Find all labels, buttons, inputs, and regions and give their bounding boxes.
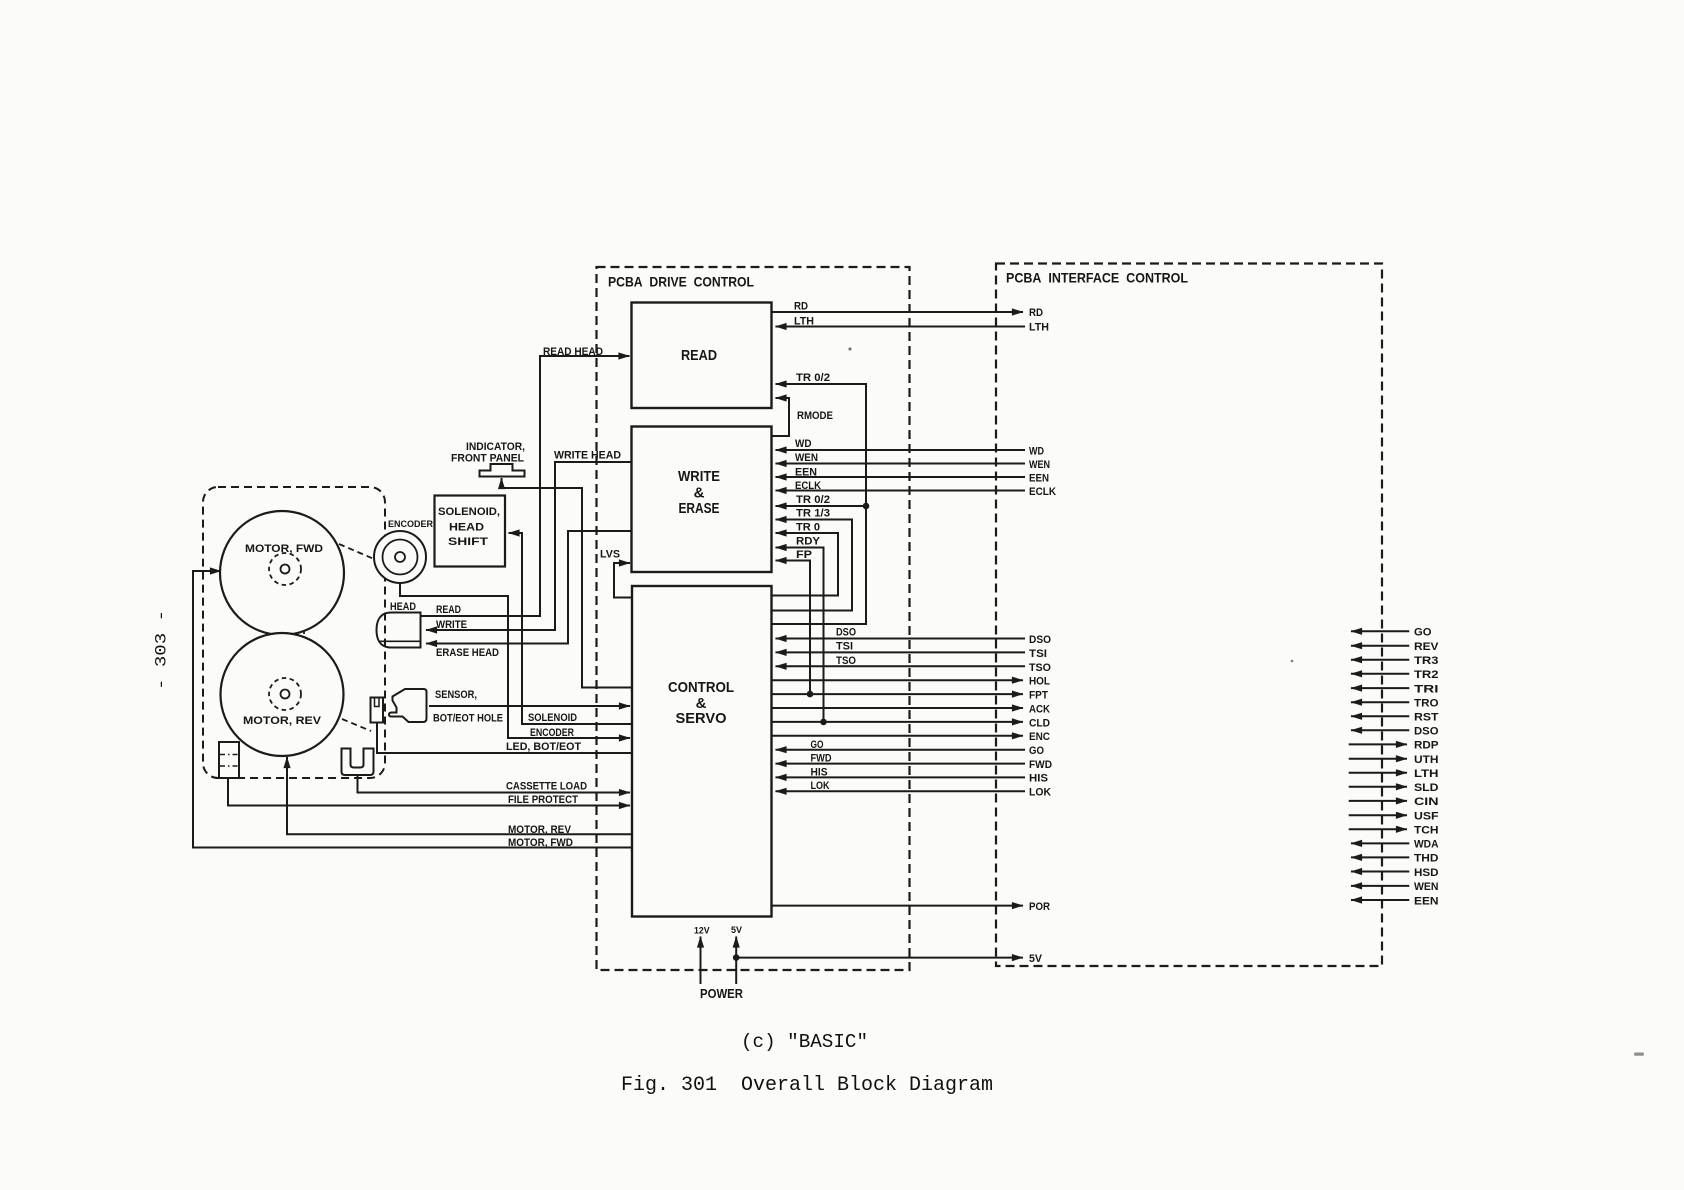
svg-text:PCBA INTERFACE CONTROL: PCBA INTERFACE CONTROL bbox=[1006, 270, 1188, 286]
svg-text:ECLK: ECLK bbox=[1029, 486, 1056, 498]
svg-text:TR3: TR3 bbox=[1414, 655, 1439, 667]
svg-text:ECLK: ECLK bbox=[795, 480, 821, 492]
svg-text:ERASE HEAD: ERASE HEAD bbox=[436, 647, 499, 659]
svg-text:WEN: WEN bbox=[1029, 459, 1050, 471]
svg-text:READ: READ bbox=[681, 347, 717, 364]
svg-text:THD: THD bbox=[1414, 853, 1439, 865]
svg-text:LOK: LOK bbox=[1029, 787, 1051, 799]
cassette (dashed rectangle) bbox=[270, 602, 304, 661]
wire 5V to interface bbox=[736, 957, 1023, 959]
PCBA INTERFACE CONTROL enclosure (dashed box) bbox=[996, 264, 1382, 967]
wire SLD (interface output, right edge) bbox=[1349, 786, 1407, 788]
wire LTH (interface to read) bbox=[776, 326, 1026, 328]
wire CIN (interface output, right edge) bbox=[1349, 800, 1407, 802]
svg-text:GO: GO bbox=[1414, 627, 1432, 639]
svg-text:FP: FP bbox=[796, 549, 812, 561]
wire RDP (interface output, right edge) bbox=[1349, 743, 1407, 745]
wire TSI (interface to control) bbox=[776, 651, 1026, 653]
wire UTH (interface output, right edge) bbox=[1349, 758, 1407, 760]
wire CASSETTE LOAD (switch to control) bbox=[358, 775, 631, 793]
wire SENSOR BOT/EOT HOLE (sensor to control) bbox=[429, 705, 630, 707]
solenoid head shift (box) bbox=[435, 496, 506, 567]
indicator front panel (lamp symbol) bbox=[480, 464, 525, 477]
motor MOTOR, REV (reel) bbox=[221, 633, 344, 756]
svg-text:ENC: ENC bbox=[1029, 731, 1050, 743]
svg-text:EEN: EEN bbox=[1029, 473, 1049, 485]
junction RDY/CLD bbox=[820, 719, 827, 726]
wire GO (interface to control) bbox=[776, 749, 1026, 751]
svg-text:POR: POR bbox=[1029, 901, 1050, 913]
wire 12V power (into control) bbox=[700, 937, 702, 985]
svg-text:MOTOR, REV: MOTOR, REV bbox=[243, 715, 322, 727]
svg-text:TR 0/2: TR 0/2 bbox=[796, 372, 830, 384]
svg-text:LOK: LOK bbox=[811, 780, 830, 792]
svg-text:- 303 -: - 303 - bbox=[153, 610, 171, 690]
svg-text:READ HEAD: READ HEAD bbox=[543, 346, 603, 358]
svg-text:UTH: UTH bbox=[1414, 754, 1439, 766]
svg-text:USF: USF bbox=[1414, 811, 1439, 823]
svg-text:FPT: FPT bbox=[1029, 690, 1048, 702]
svg-text:DSO: DSO bbox=[836, 627, 856, 639]
wire TR 0/2 (control to read) bbox=[772, 384, 867, 624]
svg-text:ACK: ACK bbox=[1029, 704, 1050, 716]
svg-text:HEAD: HEAD bbox=[390, 601, 416, 613]
wire LTH (interface output, right edge) bbox=[1349, 772, 1407, 774]
svg-text:LVS: LVS bbox=[600, 549, 620, 561]
block READ bbox=[632, 303, 772, 409]
svg-text:WRITE HEAD: WRITE HEAD bbox=[554, 450, 621, 462]
block CONTROL & SERVO bbox=[632, 586, 772, 917]
svg-text:TSO: TSO bbox=[1029, 662, 1051, 674]
svg-text:HIS: HIS bbox=[811, 767, 828, 779]
svg-text:POWER: POWER bbox=[700, 987, 743, 1001]
wire TR2 (interface input, right edge) bbox=[1351, 673, 1409, 675]
motor MOTOR, FWD (reel) bbox=[220, 511, 344, 635]
junction FP/FPT bbox=[807, 691, 814, 698]
svg-text:WEN: WEN bbox=[1414, 881, 1439, 893]
cassette load switch (U bracket) bbox=[342, 749, 374, 776]
svg-text:RDP: RDP bbox=[1414, 740, 1439, 752]
wire 5V power (into control) bbox=[735, 937, 737, 985]
svg-text:TR2: TR2 bbox=[1414, 669, 1439, 681]
wire WDA (interface input, right edge) bbox=[1351, 842, 1409, 844]
svg-text:SENSOR,: SENSOR, bbox=[435, 689, 477, 701]
svg-text:WD: WD bbox=[1029, 446, 1044, 458]
wire TR 1/3 (control to write) bbox=[772, 520, 853, 611]
svg-text:MOTOR, FWD: MOTOR, FWD bbox=[245, 543, 323, 555]
wire LOK (interface to control) bbox=[776, 790, 1026, 792]
svg-text:MOTOR, FWD: MOTOR, FWD bbox=[508, 837, 573, 849]
svg-text:PCBA DRIVE CONTROL: PCBA DRIVE CONTROL bbox=[608, 274, 754, 290]
svg-text:5V: 5V bbox=[1029, 953, 1043, 965]
sensor BOT/EOT hole (photo sensor) bbox=[389, 689, 427, 722]
wire RDY (cld net to write) bbox=[776, 548, 824, 722]
svg-text:HSD: HSD bbox=[1414, 867, 1439, 879]
wire DSO (interface input, right edge) bbox=[1351, 729, 1409, 731]
svg-text:RST: RST bbox=[1414, 712, 1439, 724]
svg-text:TCH: TCH bbox=[1414, 825, 1439, 837]
svg-text:READ: READ bbox=[436, 604, 461, 616]
wire LED BOT/EOT (control to led) bbox=[377, 723, 632, 753]
wire ECLK (interface to write) bbox=[776, 490, 1026, 492]
wire WD (interface to write) bbox=[776, 449, 1026, 451]
svg-text:ENCODER: ENCODER bbox=[388, 519, 433, 530]
wire HOL (control to interface) bbox=[772, 679, 1024, 681]
svg-text:TSI: TSI bbox=[836, 641, 853, 653]
svg-text:HIS: HIS bbox=[1029, 773, 1048, 785]
wire RST (interface input, right edge) bbox=[1351, 715, 1409, 717]
svg-text:FILE PROTECT: FILE PROTECT bbox=[508, 794, 578, 806]
wire RD (read to interface) bbox=[772, 311, 1024, 313]
wire WRITE HEAD (write block to head) bbox=[426, 462, 632, 630]
wire FP (fpt net to write) bbox=[776, 561, 811, 695]
svg-text:TR 1/3: TR 1/3 bbox=[796, 508, 830, 520]
svg-text:EEN: EEN bbox=[1414, 895, 1439, 907]
svg-text:EEN: EEN bbox=[795, 467, 817, 479]
svg-text:CASSETTE LOAD: CASSETTE LOAD bbox=[506, 781, 587, 793]
junction 5V bbox=[733, 954, 740, 961]
wire ERASE HEAD (write block to head) bbox=[426, 531, 632, 644]
svg-text:WD: WD bbox=[795, 438, 812, 450]
svg-text:5V: 5V bbox=[731, 925, 743, 936]
svg-text:LED, BOT/EOT: LED, BOT/EOT bbox=[506, 741, 581, 753]
svg-text:GO: GO bbox=[1029, 745, 1044, 757]
svg-text:CONTROL: CONTROL bbox=[668, 679, 734, 696]
svg-text:&: & bbox=[694, 485, 705, 502]
dashed link motor-fwd to encoder bbox=[339, 544, 374, 559]
wire THD (interface input, right edge) bbox=[1351, 856, 1409, 858]
PCBA DRIVE CONTROL enclosure (dashed box) bbox=[597, 267, 910, 970]
wire EEN (interface input, right edge) bbox=[1351, 899, 1409, 901]
wire HIS (interface to control) bbox=[776, 776, 1026, 778]
wire TCH (interface output, right edge) bbox=[1349, 828, 1407, 830]
svg-text:SHIFT: SHIFT bbox=[448, 536, 488, 548]
svg-text:INDICATOR,: INDICATOR, bbox=[466, 441, 525, 453]
wire FILE PROTECT (switch to control) bbox=[228, 778, 630, 806]
wire TRO (interface input, right edge) bbox=[1351, 701, 1409, 703]
svg-text:FWD: FWD bbox=[1029, 759, 1052, 771]
wire CLD (control to interface) bbox=[772, 721, 1024, 723]
wire MOTOR FWD (control to fwd motor) bbox=[193, 571, 632, 848]
LED BOT/EOT (lamp) bbox=[371, 698, 384, 723]
svg-text:WEN: WEN bbox=[795, 452, 818, 464]
wire EEN (interface to write) bbox=[776, 476, 1026, 478]
svg-text:DSO: DSO bbox=[1414, 726, 1439, 738]
svg-text:(c) "BASIC": (c) "BASIC" bbox=[741, 1031, 868, 1053]
svg-text:SOLENOID: SOLENOID bbox=[528, 712, 577, 724]
svg-text:LTH: LTH bbox=[1414, 768, 1439, 780]
svg-text:SERVO: SERVO bbox=[676, 710, 727, 727]
wire TRI (interface input, right edge) bbox=[1351, 687, 1409, 689]
svg-text:TSI: TSI bbox=[1029, 648, 1047, 660]
wire REV (interface input, right edge) bbox=[1351, 645, 1409, 647]
head (read/write head) bbox=[377, 613, 421, 648]
wire FWD (interface to control) bbox=[776, 763, 1026, 765]
encoder (disc) bbox=[374, 531, 426, 583]
wire HSD (interface input, right edge) bbox=[1351, 871, 1409, 873]
block WRITE & ERASE bbox=[632, 427, 772, 573]
svg-text:WRITE: WRITE bbox=[436, 619, 467, 631]
svg-text:FRONT PANEL: FRONT PANEL bbox=[451, 453, 524, 465]
svg-text:RD: RD bbox=[1029, 307, 1043, 319]
svg-text:REV: REV bbox=[1414, 641, 1439, 653]
svg-text:HOL: HOL bbox=[1029, 676, 1050, 688]
svg-text:TRI: TRI bbox=[1414, 683, 1439, 695]
svg-text:LTH: LTH bbox=[1029, 322, 1049, 334]
wire GO (interface input, right edge) bbox=[1351, 630, 1409, 632]
wire TR 0 (control to write) bbox=[772, 533, 839, 596]
svg-text:ERASE: ERASE bbox=[679, 500, 720, 517]
svg-text:MOTOR, REV: MOTOR, REV bbox=[508, 824, 572, 836]
svg-text:TRO: TRO bbox=[1414, 698, 1439, 710]
svg-text:GO: GO bbox=[811, 739, 824, 751]
wire DSO (interface to control) bbox=[776, 638, 1026, 640]
wire TSO (interface to control) bbox=[776, 665, 1026, 667]
svg-text:TR 0: TR 0 bbox=[796, 522, 820, 534]
wire RMODE (write block to read) bbox=[772, 398, 790, 436]
wire ENC (control to interface) bbox=[772, 735, 1024, 737]
wire FPT (control to interface) bbox=[772, 693, 1024, 695]
svg-text:CLD: CLD bbox=[1029, 718, 1050, 730]
wire WEN (interface input, right edge) bbox=[1351, 885, 1409, 887]
svg-text:BOT/EOT HOLE: BOT/EOT HOLE bbox=[433, 713, 503, 725]
svg-text:DSO: DSO bbox=[1029, 634, 1051, 646]
wire WEN (interface to write) bbox=[776, 463, 1026, 465]
tape transport assembly (dashed rounded container) bbox=[203, 487, 385, 778]
wire USF (interface output, right edge) bbox=[1349, 814, 1407, 816]
junction TR 0/2 bbox=[863, 503, 870, 510]
svg-text:RDY: RDY bbox=[796, 536, 821, 548]
file protect switch (rect with dash-dot lines) bbox=[219, 742, 239, 778]
svg-text:WDA: WDA bbox=[1414, 839, 1439, 851]
wire LVS (control to write block) bbox=[614, 563, 632, 598]
wire TR3 (interface input, right edge) bbox=[1351, 659, 1409, 661]
svg-text:SLD: SLD bbox=[1414, 782, 1439, 794]
dashed link motor-rev to led bbox=[342, 719, 371, 731]
wire SOLENOID (control to solenoid box) bbox=[509, 533, 633, 724]
svg-text:ENCODER: ENCODER bbox=[530, 727, 574, 739]
svg-text:TSO: TSO bbox=[836, 655, 856, 667]
svg-text:SOLENOID,: SOLENOID, bbox=[438, 506, 500, 518]
wire READ HEAD (head to READ block) bbox=[421, 356, 630, 616]
wire TR 0/2 branch (to write block) bbox=[776, 505, 867, 507]
wire ACK (control to interface) bbox=[772, 707, 1024, 709]
svg-text:LTH: LTH bbox=[794, 316, 814, 328]
wire POR (control to interface) bbox=[772, 905, 1024, 907]
svg-text:CIN: CIN bbox=[1414, 796, 1439, 808]
svg-text:RD: RD bbox=[794, 301, 808, 313]
svg-text:WRITE: WRITE bbox=[678, 468, 720, 485]
wire indicator (control to front panel indicator) bbox=[502, 478, 633, 688]
wire MOTOR REV (control to rev motor) bbox=[287, 757, 632, 834]
svg-text:FWD: FWD bbox=[811, 753, 832, 765]
svg-text:12V: 12V bbox=[694, 926, 710, 937]
svg-text:Fig. 301 Overall Block Diagra: Fig. 301 Overall Block Diagram bbox=[621, 1074, 993, 1097]
wire ENCODER (encoder to control) bbox=[400, 583, 630, 738]
svg-text:RMODE: RMODE bbox=[797, 410, 833, 422]
svg-text:HEAD: HEAD bbox=[449, 522, 484, 534]
svg-text:TR 0/2: TR 0/2 bbox=[796, 494, 830, 506]
